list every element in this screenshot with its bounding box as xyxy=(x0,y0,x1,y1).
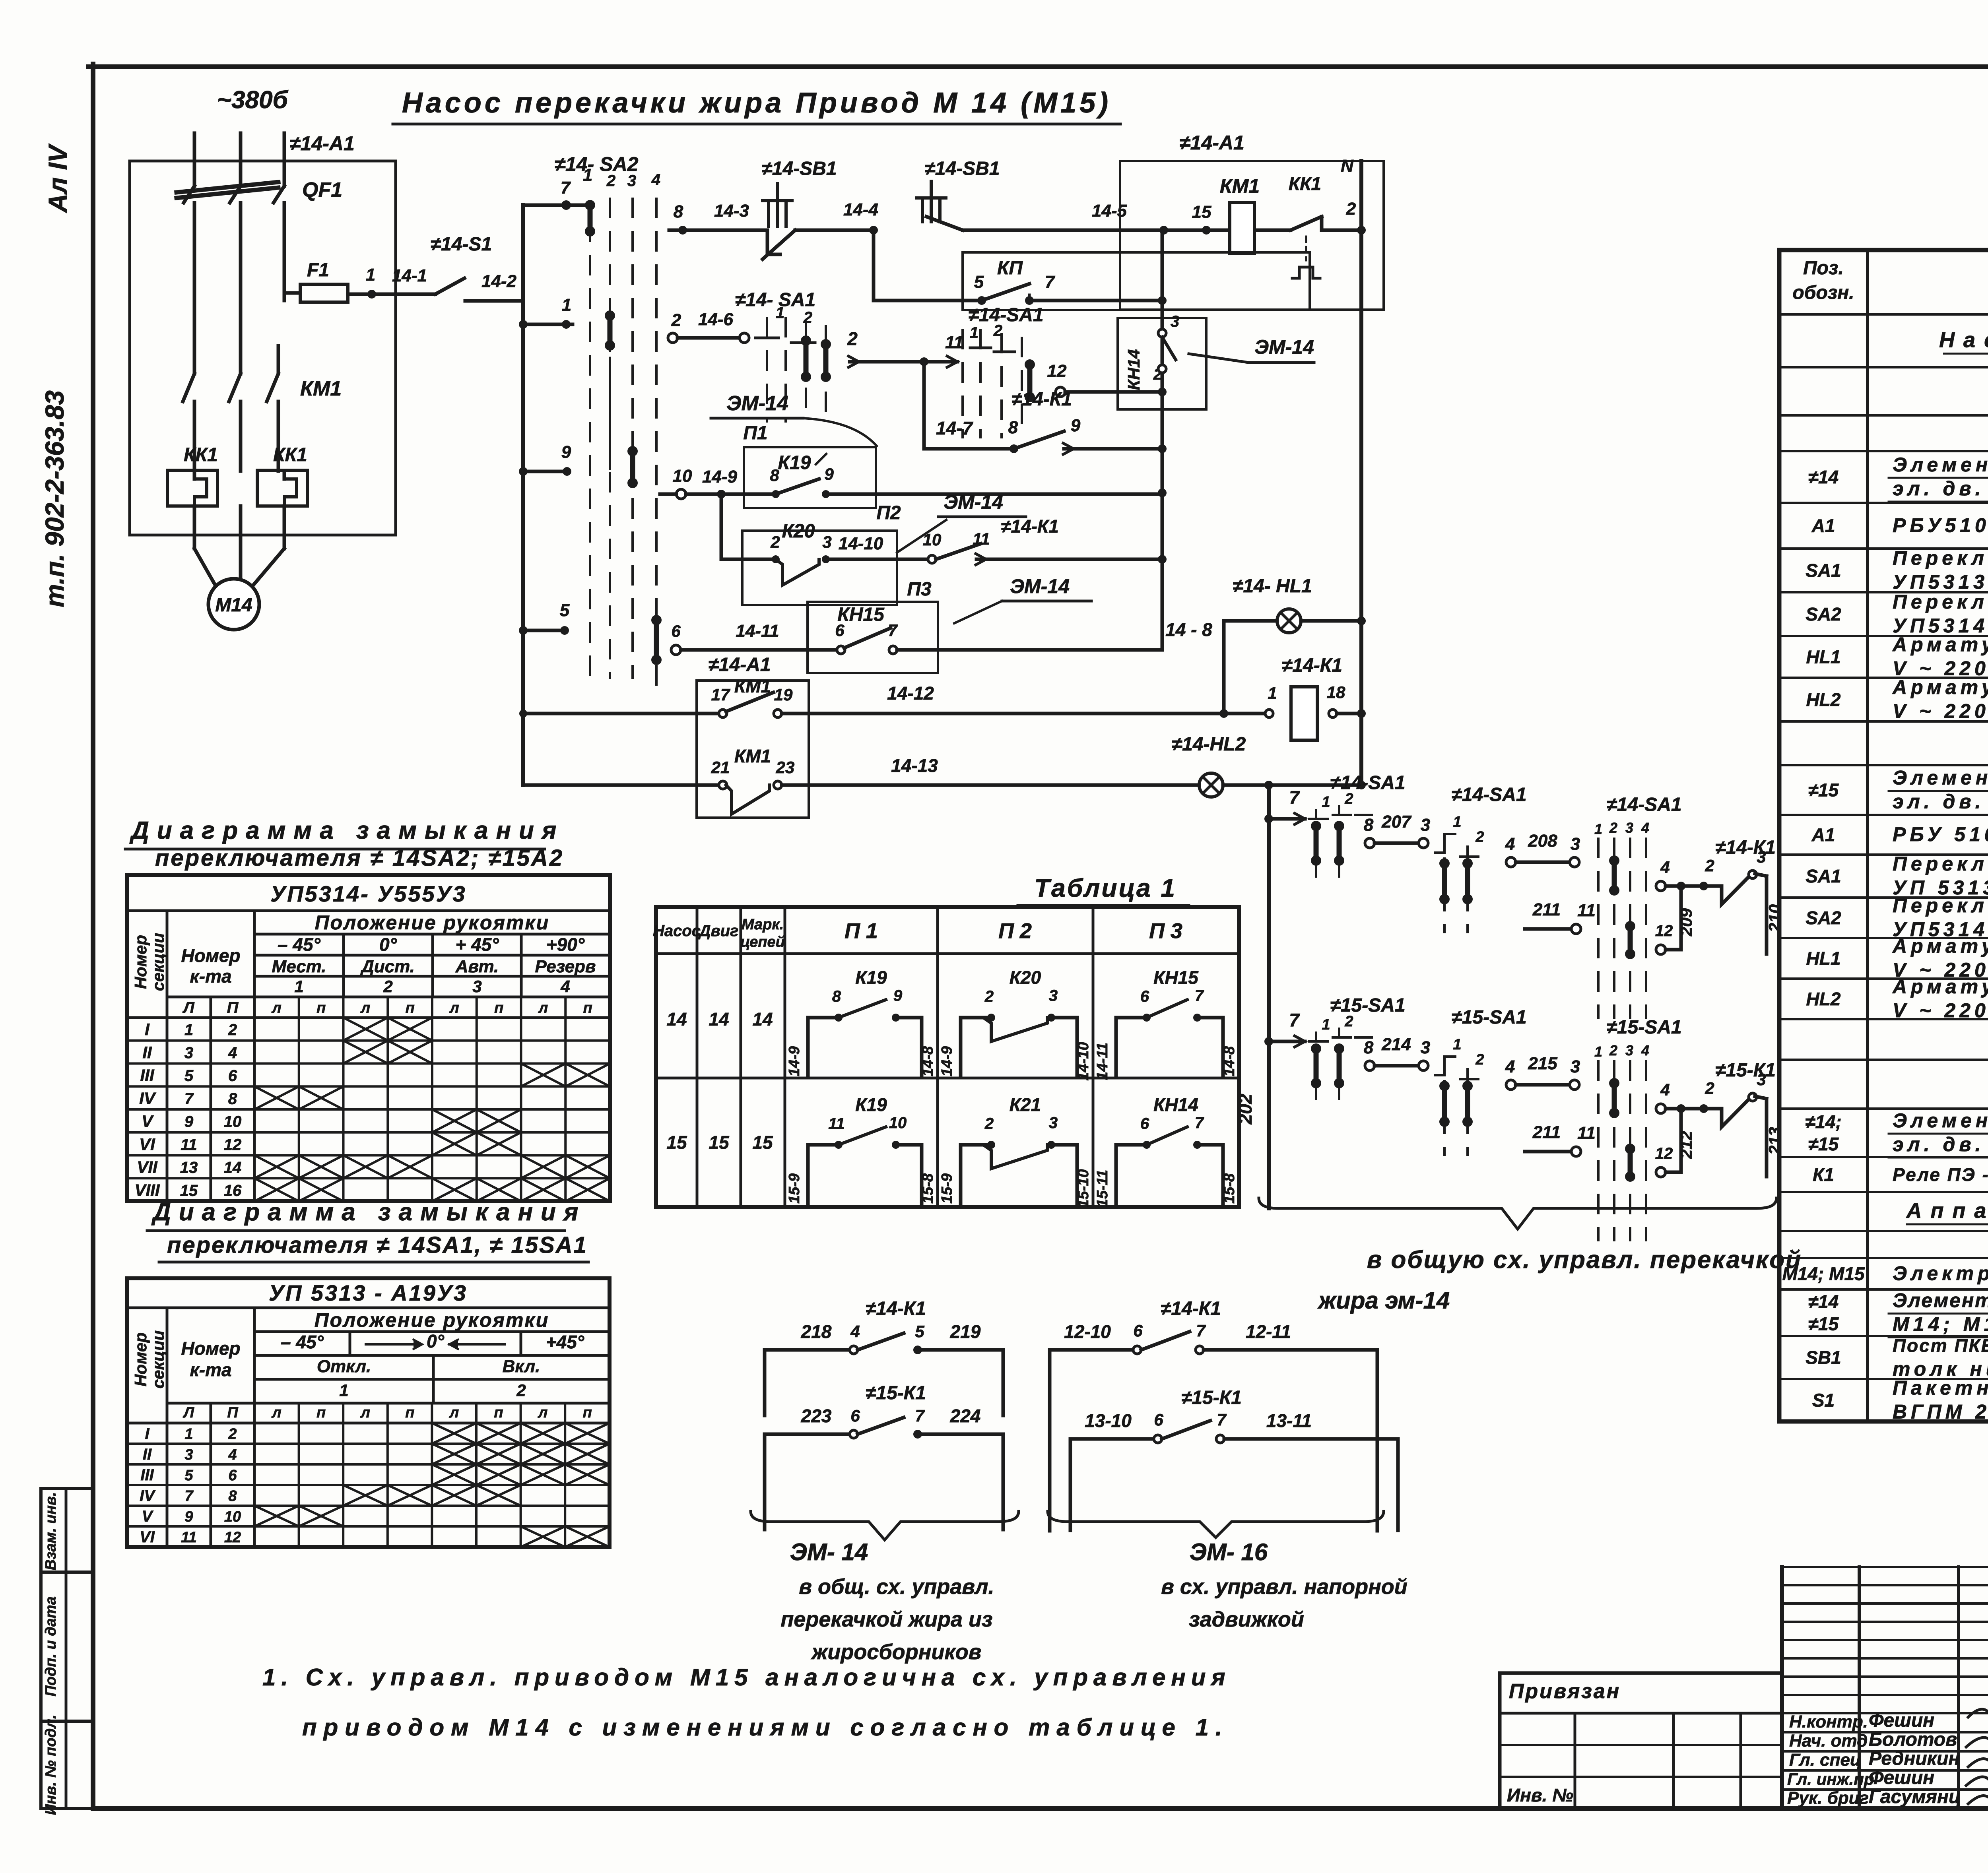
wire 215 second link xyxy=(1505,1054,1580,1090)
svg-text:3: 3 xyxy=(1421,1038,1430,1057)
svg-text:15-10: 15-10 xyxy=(1075,1169,1092,1208)
svg-text:2: 2 xyxy=(1344,1013,1353,1030)
svg-text:п: п xyxy=(583,1000,592,1016)
wire 1 from bus xyxy=(519,295,573,329)
svg-text:3: 3 xyxy=(627,172,636,190)
svg-text:ЭМ-14: ЭМ-14 xyxy=(944,491,1003,513)
svg-text:15: 15 xyxy=(709,1132,730,1153)
relay block P2 with contact K20 xyxy=(721,491,1162,605)
svg-text:Н.контр.: Н.контр. xyxy=(1789,1712,1868,1731)
svg-text:≠15-К1: ≠15-К1 xyxy=(866,1382,926,1404)
switch #14-SA2 column labels xyxy=(555,153,661,198)
svg-text:10: 10 xyxy=(889,1114,907,1132)
parts row ≠14 ≠15 xyxy=(1808,1289,1988,1338)
svg-text:Резерв: Резерв xyxy=(535,957,596,976)
contact KM1 17-19 wire 14-12 xyxy=(519,676,1273,718)
lamp #14-HL1 xyxy=(1224,576,1366,714)
wire 207 first link xyxy=(1364,812,1430,848)
svg-text:23: 23 xyxy=(776,758,795,777)
svg-text:14-10: 14-10 xyxy=(839,534,883,553)
svg-text:КН15: КН15 xyxy=(1153,967,1199,988)
svg-text:6: 6 xyxy=(1140,1115,1149,1132)
svg-text:7: 7 xyxy=(1217,1410,1227,1429)
svg-text:11: 11 xyxy=(973,529,990,548)
svg-text:Насос: Насос xyxy=(653,922,701,940)
svg-text:+90°: +90° xyxy=(546,934,585,955)
stamp strip label Подп. и дата xyxy=(43,1596,59,1697)
svg-text:НL1: НL1 xyxy=(1806,948,1841,969)
svg-text:6: 6 xyxy=(1154,1410,1163,1429)
svg-text:2: 2 xyxy=(847,328,858,349)
thermal contact KK1 xyxy=(1255,173,1366,278)
svg-text:Инв. № подл.: Инв. № подл. xyxy=(43,1715,59,1815)
svg-text:Л: Л xyxy=(182,999,195,1016)
svg-text:П: П xyxy=(227,1404,238,1421)
svg-text:эл. дв. М 14: эл. дв. М 14 xyxy=(1893,477,1988,500)
svg-text:≠14-К1: ≠14-К1 xyxy=(1011,389,1072,410)
svg-text:8: 8 xyxy=(770,466,779,485)
svg-text:секции: секции xyxy=(149,1330,167,1388)
table cell contact КН15 xyxy=(1094,967,1238,1080)
svg-text:УП5313 - А19У3 рев: УП5313 - А19У3 рев xyxy=(1893,571,1988,593)
svg-text:к-та: к-та xyxy=(190,966,231,987)
relay block P1 with contact K19 xyxy=(660,392,1162,508)
svg-text:SА1: SА1 xyxy=(1806,560,1841,581)
svg-text:V: V xyxy=(142,1112,154,1130)
svg-text:10: 10 xyxy=(224,1508,241,1525)
svg-text:1: 1 xyxy=(294,977,303,996)
svg-text:209: 209 xyxy=(1677,908,1695,936)
signature rows text xyxy=(1787,1710,1961,1808)
svg-text:SА2: SА2 xyxy=(1806,907,1841,928)
svg-text:12: 12 xyxy=(1047,361,1067,381)
svg-text:Переключатель: Переключатель xyxy=(1893,547,1988,569)
parts row xyxy=(0,0,0,0)
svg-text:19: 19 xyxy=(774,685,793,704)
svg-text:14-10: 14-10 xyxy=(1075,1042,1092,1080)
svg-text:Нач. отд: Нач. отд xyxy=(1789,1731,1868,1751)
svg-text:11: 11 xyxy=(181,1529,196,1546)
thermal relay heater KK1 left xyxy=(167,444,218,506)
svg-text:14: 14 xyxy=(224,1159,242,1177)
svg-text:6: 6 xyxy=(671,622,681,640)
svg-text:V ~ 220В цвет зелен.: V ~ 220В цвет зелен. xyxy=(1893,999,1988,1022)
table Таблица 1 headers xyxy=(653,916,1182,950)
svg-text:обозн.: обозн. xyxy=(1792,282,1854,303)
svg-text:III: III xyxy=(140,1466,154,1484)
svg-text:К19: К19 xyxy=(778,452,811,473)
svg-text:– 45°: – 45° xyxy=(278,934,321,955)
svg-text:Электродвигатель ~ 380в: Электродвигатель ~ 380в xyxy=(1893,1262,1988,1285)
svg-text:Диаграмма замыкания: Диаграмма замыкания xyxy=(129,817,564,844)
svg-text:2: 2 xyxy=(1609,820,1617,836)
svg-text:≠15-SA1: ≠15-SA1 xyxy=(1330,995,1405,1016)
parts row S1 xyxy=(1812,1377,1988,1423)
svg-text:211: 211 xyxy=(1532,1123,1561,1142)
svg-text:2: 2 xyxy=(1475,829,1484,845)
heading Диаграмма замыкания SA2 xyxy=(125,817,580,874)
svg-text:SВ1: SВ1 xyxy=(1806,1347,1841,1368)
svg-text:5: 5 xyxy=(184,1467,193,1484)
svg-text:207: 207 xyxy=(1381,812,1412,832)
svg-text:Арматура ЛС - 53: Арматура ЛС - 53 xyxy=(1892,676,1988,698)
svg-text:1: 1 xyxy=(776,304,784,322)
svg-text:1: 1 xyxy=(184,1426,193,1443)
switch 15-SA1 first pair xyxy=(1309,995,1406,1113)
svg-text:224: 224 xyxy=(950,1406,981,1426)
svg-text:3: 3 xyxy=(822,533,831,551)
svg-text:Фешин: Фешин xyxy=(1869,1767,1934,1788)
diagram table SA2 grid xyxy=(127,875,610,1201)
svg-text:11: 11 xyxy=(1577,1123,1596,1143)
svg-text:3: 3 xyxy=(1625,1042,1633,1059)
svg-text:≠15-К1: ≠15-К1 xyxy=(1181,1387,1242,1408)
svg-text:КМ1: КМ1 xyxy=(1220,175,1260,197)
parts row Насосная станция xyxy=(1939,328,1988,354)
svg-text:1: 1 xyxy=(339,1381,348,1400)
svg-text:НL2: НL2 xyxy=(1806,989,1841,1009)
svg-text:УП5314- У555У3: УП5314- У555У3 xyxy=(270,881,466,906)
svg-text:2: 2 xyxy=(606,172,615,190)
svg-text:л: л xyxy=(449,1404,459,1421)
svg-text:6: 6 xyxy=(850,1406,860,1425)
svg-text:15: 15 xyxy=(752,1132,773,1153)
svg-text:0°: 0° xyxy=(379,934,397,955)
svg-text:3: 3 xyxy=(184,1044,193,1062)
svg-text:≠14-К1: ≠14-К1 xyxy=(1161,1298,1221,1319)
switch #14-SA1 group a xyxy=(735,289,831,421)
svg-text:ЭМ-14: ЭМ-14 xyxy=(1010,575,1070,597)
svg-text:Привязан: Привязан xyxy=(1509,1680,1621,1703)
table cell contact К21 xyxy=(939,1094,1092,1208)
svg-text:Насосная станция: Насосная станция xyxy=(1939,328,1988,352)
svg-text:Инв. №: Инв. № xyxy=(1507,1785,1573,1805)
svg-text:214: 214 xyxy=(1381,1035,1411,1054)
svg-text:П1: П1 xyxy=(743,423,767,444)
svg-text:3: 3 xyxy=(1049,987,1058,1004)
svg-text:1: 1 xyxy=(1594,1043,1602,1060)
parts row НL2 xyxy=(1806,975,1988,1022)
svg-text:Рук. бриг: Рук. бриг xyxy=(1787,1788,1869,1808)
svg-text:Арматура ЛС - 53: Арматура ЛС - 53 xyxy=(1892,935,1988,957)
svg-text:жира эм-14: жира эм-14 xyxy=(1317,1287,1450,1314)
svg-text:11: 11 xyxy=(181,1136,197,1154)
svg-text:N: N xyxy=(1341,156,1354,176)
svg-text:л: л xyxy=(538,1000,548,1016)
svg-text:15: 15 xyxy=(666,1132,687,1153)
parts row К1 xyxy=(1813,1164,1988,1186)
svg-text:УП 5313 - А19У3: УП 5313 - А19У3 xyxy=(269,1280,468,1305)
svg-text:КН15: КН15 xyxy=(837,604,885,625)
svg-text:12: 12 xyxy=(1655,1145,1673,1162)
svg-text:14-9: 14-9 xyxy=(702,467,738,487)
brace common control circuit xyxy=(1259,1198,1776,1229)
wire 14-1 with switch #14-S1 xyxy=(348,234,523,301)
note line 2 xyxy=(302,1714,1229,1741)
svg-text:≠15-К1: ≠15-К1 xyxy=(1715,1060,1776,1081)
svg-text:П: П xyxy=(227,999,239,1016)
svg-text:2: 2 xyxy=(383,977,392,996)
svg-text:2: 2 xyxy=(671,310,681,330)
svg-text:212: 212 xyxy=(1677,1131,1695,1159)
svg-text:15-8: 15-8 xyxy=(920,1173,936,1204)
svg-text:7: 7 xyxy=(1289,1010,1300,1030)
svg-text:13-10: 13-10 xyxy=(1085,1410,1132,1431)
svg-text:208: 208 xyxy=(1528,831,1557,851)
left control bus xyxy=(521,205,525,785)
svg-text:12: 12 xyxy=(224,1136,242,1154)
contact 15-К1 wire 223 xyxy=(765,1382,1003,1530)
wire 214 first link xyxy=(1364,1035,1430,1070)
brace ЭМ-16 xyxy=(1048,1511,1384,1565)
wire 12 output xyxy=(1047,361,1162,397)
wire 211 11 15 xyxy=(1525,1123,1596,1156)
svg-text:14-13: 14-13 xyxy=(891,755,938,776)
contactor coil KM1 xyxy=(1220,175,1260,253)
svg-text:+45°: +45° xyxy=(546,1332,584,1352)
svg-text:8: 8 xyxy=(1364,1038,1374,1057)
contact KN14 xyxy=(1118,313,1314,409)
svg-text:П 1: П 1 xyxy=(845,919,878,943)
svg-text:Номер: Номер xyxy=(181,1338,240,1359)
svg-text:VI: VI xyxy=(140,1528,155,1546)
svg-text:3: 3 xyxy=(1625,820,1633,836)
diagram table SA1 closure marks xyxy=(254,1423,610,1547)
motor M14 xyxy=(194,506,284,630)
attachment block Привязан xyxy=(1500,1673,1782,1809)
wire node 7 to SA2 xyxy=(523,200,595,237)
parts row ≠14; ≠15 xyxy=(1805,1109,1988,1158)
svg-text:К20: К20 xyxy=(1010,967,1041,988)
svg-text:в общую сх. управл. перекач: в общую сх. управл. перекачкой xyxy=(1367,1246,1802,1274)
svg-text:VII: VII xyxy=(137,1158,158,1177)
svg-text:14-1: 14-1 xyxy=(392,266,427,285)
svg-text:2: 2 xyxy=(1475,1051,1484,1068)
svg-text:12: 12 xyxy=(224,1529,241,1546)
pushbutton #14-SB1 start xyxy=(916,158,1000,230)
parts row SВ1 xyxy=(1806,1335,1988,1380)
svg-text:14-12: 14-12 xyxy=(887,683,934,704)
svg-text:218: 218 xyxy=(801,1321,832,1342)
svg-text:≠14-А1: ≠14-А1 xyxy=(289,132,355,155)
svg-text:18: 18 xyxy=(1327,683,1345,702)
svg-text:л: л xyxy=(271,1404,282,1421)
svg-text:SА1: SА1 xyxy=(1806,866,1841,886)
svg-text:п: п xyxy=(316,1404,326,1421)
svg-text:к-та: к-та xyxy=(190,1359,231,1380)
svg-text:К1: К1 xyxy=(1813,1164,1834,1185)
svg-text:2: 2 xyxy=(1705,1079,1714,1097)
SA2 contact bar column3 xyxy=(627,446,638,488)
svg-text:7: 7 xyxy=(561,178,571,198)
svg-text:п: п xyxy=(494,1000,503,1016)
svg-text:1: 1 xyxy=(1268,684,1277,702)
svg-text:Аппаратура по месту: Аппаратура по месту xyxy=(1905,1199,1988,1223)
stamp strip label Инв. № подл. xyxy=(43,1715,59,1815)
svg-text:Арматура ЛС - 53: Арматура ЛС - 53 xyxy=(1892,975,1988,998)
svg-text:8: 8 xyxy=(228,1090,237,1107)
SA2 dashed contact columns xyxy=(590,199,656,700)
svg-text:8: 8 xyxy=(674,202,683,221)
svg-text:Насос перекачки жира Приво: Насос перекачки жира Привод М 14 (М15) xyxy=(402,87,1111,119)
stamp strip label Взам. инв. № xyxy=(43,1492,59,1571)
caption жира ЭМ-14 xyxy=(1317,1287,1450,1314)
svg-text:3: 3 xyxy=(1571,1057,1580,1076)
svg-text:II: II xyxy=(142,1043,152,1062)
parts row А1 xyxy=(1811,514,1988,537)
svg-text:Гасумянц: Гасумянц xyxy=(1869,1786,1961,1807)
label #14-A1 xyxy=(289,132,355,155)
svg-text:1: 1 xyxy=(1322,1016,1330,1033)
thermal relay heater KK1 right xyxy=(257,444,307,506)
contact 15-К1 wire 13-10 xyxy=(1070,1387,1398,1530)
svg-text:КМ1: КМ1 xyxy=(300,377,342,400)
svg-text:1: 1 xyxy=(1453,814,1461,830)
svg-text:2: 2 xyxy=(1705,856,1714,875)
svg-text:Откл.: Откл. xyxy=(317,1357,371,1376)
parts row ≠14 xyxy=(1808,454,1988,502)
svg-text:НL1: НL1 xyxy=(1806,647,1841,667)
svg-text:переключателя ≠ 14SA2; ≠15А2: переключателя ≠ 14SA2; ≠15А2 xyxy=(155,845,564,871)
svg-text:11: 11 xyxy=(1577,901,1596,920)
svg-text:Болотов: Болотов xyxy=(1869,1729,1957,1750)
svg-text:приводом М14 с изменениями сог: приводом М14 с изменениями согласно табл… xyxy=(302,1714,1229,1741)
contact 14-К1 wire 12-10 xyxy=(1050,1298,1377,1531)
parts row НL2 xyxy=(1806,676,1988,722)
svg-text:1: 1 xyxy=(1594,821,1602,837)
svg-text:5: 5 xyxy=(560,601,570,620)
svg-text:V: V xyxy=(142,1508,154,1525)
signatures scribbles xyxy=(1966,1709,1988,1813)
table cell contact К19 xyxy=(786,967,936,1077)
svg-text:П 3: П 3 xyxy=(1149,919,1182,943)
svg-text:F1: F1 xyxy=(307,260,329,281)
svg-text:Арматура ЛС - 53: Арматура ЛС - 53 xyxy=(1892,634,1988,656)
bus 202 xyxy=(1235,781,1273,1208)
svg-text:П 2: П 2 xyxy=(998,919,1032,943)
svg-text:8: 8 xyxy=(1364,815,1374,835)
svg-text:2: 2 xyxy=(770,533,780,551)
switch 14-SA1 second pair xyxy=(1435,784,1527,932)
svg-text:≠14-SA1: ≠14-SA1 xyxy=(1330,772,1405,793)
wire 5 from bus xyxy=(519,601,570,635)
svg-text:14-3: 14-3 xyxy=(714,201,749,221)
svg-text:VIII: VIII xyxy=(134,1181,160,1199)
svg-text:~380б: ~380б xyxy=(217,86,289,114)
svg-text:219: 219 xyxy=(950,1321,981,1342)
svg-text:2: 2 xyxy=(1344,791,1353,807)
diagram table SA1 grid xyxy=(127,1278,610,1547)
svg-text:V ~ 220В цвет зелен.: V ~ 220В цвет зелен. xyxy=(1893,700,1988,722)
svg-text:3: 3 xyxy=(1571,834,1580,854)
svg-text:SА2: SА2 xyxy=(1806,604,1841,624)
power panel box #14-A1 xyxy=(130,161,396,535)
svg-text:Элементы управления эл. дв.: Элементы управления эл. дв. xyxy=(1893,1289,1988,1312)
svg-text:КН14: КН14 xyxy=(1124,349,1143,390)
svg-text:1: 1 xyxy=(562,295,571,315)
svg-text:2: 2 xyxy=(803,309,812,326)
svg-text:≠14-SB1: ≠14-SB1 xyxy=(761,158,837,179)
panel box #14-A1 control xyxy=(1120,132,1384,310)
parts row SА2 xyxy=(1806,591,1988,637)
svg-text:Марк.: Марк. xyxy=(742,916,784,933)
svg-text:5: 5 xyxy=(184,1067,194,1085)
svg-text:РБУ 5101 - 23А 2В: РБУ 5101 - 23А 2В xyxy=(1893,823,1988,845)
svg-text:4: 4 xyxy=(1660,858,1670,876)
svg-text:4: 4 xyxy=(560,977,570,996)
svg-text:Авт.: Авт. xyxy=(455,957,499,976)
svg-text:211: 211 xyxy=(1532,900,1561,919)
svg-text:Таблица 1: Таблица 1 xyxy=(1034,874,1176,902)
svg-text:15-9: 15-9 xyxy=(786,1173,803,1204)
diagram table SA2 row labels xyxy=(134,1020,242,1199)
svg-text:≠14-SA1: ≠14-SA1 xyxy=(1606,794,1681,815)
parts row SА1 xyxy=(1806,853,1988,899)
svg-text:≠15-SA1: ≠15-SA1 xyxy=(1606,1017,1681,1038)
switch #14-SA1 group b xyxy=(963,304,1044,437)
svg-text:К20: К20 xyxy=(782,521,815,542)
svg-text:2: 2 xyxy=(984,1115,994,1132)
svg-text:21: 21 xyxy=(711,758,730,777)
svg-text:задвижкой: задвижкой xyxy=(1189,1607,1304,1631)
svg-text:Номер: Номер xyxy=(131,1332,150,1386)
switch 14-SA1 first pair xyxy=(1309,772,1406,890)
svg-text:А1: А1 xyxy=(1811,516,1835,536)
svg-text:2: 2 xyxy=(1346,199,1356,219)
svg-text:– 45°: – 45° xyxy=(281,1332,324,1352)
switch 15-SA1 third group xyxy=(1594,1017,1682,1240)
svg-text:7: 7 xyxy=(1195,1114,1204,1132)
svg-text:10: 10 xyxy=(923,530,942,549)
svg-text:≠14- HL1: ≠14- HL1 xyxy=(1233,576,1312,597)
svg-text:≠15: ≠15 xyxy=(1808,1314,1839,1334)
svg-text:≠15: ≠15 xyxy=(1808,1134,1839,1154)
svg-text:Двиг: Двиг xyxy=(698,922,739,940)
svg-text:6: 6 xyxy=(1133,1321,1143,1340)
svg-text:5: 5 xyxy=(974,272,984,292)
svg-text:Пост ПКЕ 212 - 2 У3 толк: Пост ПКЕ 212 - 2 У3 толк верхн 1з1р xyxy=(1893,1335,1988,1356)
svg-text:7: 7 xyxy=(184,1090,194,1107)
svg-text:≠14-SB1: ≠14-SB1 xyxy=(924,158,1000,179)
svg-text:Подп. и дата: Подп. и дата xyxy=(43,1596,59,1697)
svg-text:6: 6 xyxy=(1140,988,1149,1005)
svg-text:14-11: 14-11 xyxy=(736,621,779,641)
table cell contact К19 xyxy=(786,1094,936,1204)
contactor KM1 main contacts xyxy=(183,346,342,471)
svg-text:≠14-К1: ≠14-К1 xyxy=(1715,837,1776,858)
wire 208 second link xyxy=(1505,831,1580,867)
svg-text:НL2: НL2 xyxy=(1806,689,1841,710)
svg-text:Взам. инв.: Взам. инв. xyxy=(43,1492,59,1571)
svg-text:≠14-SA1: ≠14-SA1 xyxy=(1451,784,1526,805)
svg-text:2: 2 xyxy=(1609,1042,1617,1059)
svg-text:IV: IV xyxy=(140,1487,156,1505)
svg-text:Ал IV: Ал IV xyxy=(43,143,72,213)
svg-text:8: 8 xyxy=(228,1488,237,1505)
svg-text:14-9: 14-9 xyxy=(786,1046,803,1076)
svg-text:4: 4 xyxy=(850,1322,860,1341)
svg-text:переключателя ≠ 14SА1, ≠ 15S: переключателя ≠ 14SА1, ≠ 15SА1 xyxy=(167,1232,588,1258)
svg-text:3: 3 xyxy=(472,977,481,996)
svg-text:4: 4 xyxy=(1505,834,1515,854)
svg-text:14-8: 14-8 xyxy=(1221,1046,1238,1076)
svg-text:Гл. инж.пр: Гл. инж.пр xyxy=(1787,1770,1874,1788)
svg-text:Элементы управления: Элементы управления xyxy=(1893,767,1988,789)
svg-text:2: 2 xyxy=(516,1381,526,1400)
svg-text:1: 1 xyxy=(583,165,592,185)
svg-text:Положение рукоятки: Положение рукоятки xyxy=(315,911,550,934)
svg-text:9: 9 xyxy=(824,465,834,483)
